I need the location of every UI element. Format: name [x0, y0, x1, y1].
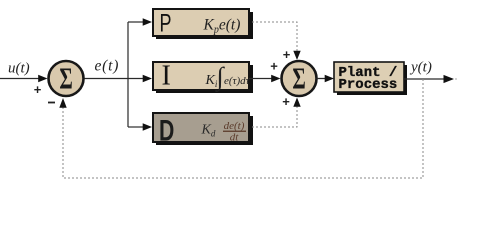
svg-text:Σ: Σ [59, 61, 72, 95]
sign - at S1 bottom input [48, 102, 55, 104]
svg-text:D: D [159, 115, 174, 147]
svg-text:de(t): de(t) [224, 120, 245, 132]
wire: S2 output to Plant [317, 78, 327, 80]
wire: I output to S2 left [249, 78, 272, 80]
block D [153, 113, 249, 142]
svg-text:Process: Process [339, 77, 398, 93]
svg-text:y(t): y(t) [409, 60, 432, 76]
block Plant/Process [334, 62, 404, 92]
svg-text:dt: dt [230, 132, 240, 144]
wire: branch to P block [128, 21, 144, 23]
svg-text:e(t): e(t) [95, 58, 120, 75]
svg-text:+: + [283, 47, 291, 62]
wire: output y(t) [404, 78, 445, 80]
wire: D output to S2 bottom (dotted) [252, 106, 297, 127]
summing junction S1 [49, 61, 84, 96]
wire: input u(t) into summing junction S1 [0, 78, 40, 80]
wire: feedback loop (dotted) [63, 79, 423, 178]
svg-text:e(τ)dτ: e(τ)dτ [224, 75, 251, 87]
block D shadow [156, 116, 253, 145]
svg-text:Σ: Σ [292, 61, 305, 95]
block Plant/Process shadow [337, 65, 407, 95]
block P shadow [156, 12, 253, 39]
svg-text:+: + [270, 59, 278, 74]
svg-text:P: P [160, 9, 172, 38]
block P [153, 9, 249, 36]
svg-text:+: + [34, 82, 42, 97]
summing junction S2 [282, 61, 317, 96]
node A branch vertical [127, 22, 129, 127]
svg-text:I: I [162, 61, 171, 92]
wire: branch to D block [128, 126, 144, 128]
svg-text:Kpe(t): Kpe(t) [203, 17, 241, 36]
wire: P output to S2 top (dotted) [252, 22, 297, 51]
wire: e(t) from S1 to node A and into I block [85, 78, 145, 80]
svg-text:u(t): u(t) [8, 61, 30, 77]
svg-text:+: + [282, 94, 290, 109]
block I shadow [156, 65, 253, 93]
block I [153, 62, 249, 90]
